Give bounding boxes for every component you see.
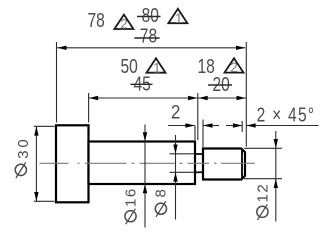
arrowhead 2 groove right	[203, 123, 212, 127]
arrowhead d30 top	[34, 126, 38, 135]
extension line groove middle (50/18 junction)	[197, 93, 199, 140]
arrowhead d12 top	[274, 139, 278, 148]
dimension line 18	[198, 97, 246, 99]
revision triangle 2 (18)	[225, 58, 244, 72]
d8 extension line bottom	[170, 171, 196, 173]
svg-text:12: 12	[254, 183, 271, 203]
shaft section d16	[89, 142, 196, 185]
svg-text:1: 1	[153, 60, 161, 75]
d12 extension line top	[244, 147, 282, 149]
arrowhead d8 top	[173, 145, 177, 154]
chamfer edge line	[241, 149, 243, 179]
arrowhead chamfer right	[246, 123, 255, 127]
d30 extension line bottom	[34, 200, 55, 202]
svg-text:2: 2	[171, 102, 181, 123]
revision triangle 1 (50)	[147, 58, 166, 72]
dimension line d12	[275, 131, 277, 222]
label d16	[125, 209, 136, 225]
dimension line chamfer left tail	[226, 125, 242, 127]
arrowhead 78 right	[236, 46, 245, 50]
dimension line d30	[35, 126, 37, 201]
svg-text:8: 8	[153, 188, 170, 198]
arrowhead 18 left	[198, 96, 207, 100]
dimension line d16	[144, 125, 146, 228]
arrowhead 18 right	[237, 96, 246, 100]
centerline (shaft axis)	[40, 162, 256, 164]
dimension line 2 (groove) right tail	[203, 125, 219, 127]
svg-text:2 × 45°: 2 × 45°	[257, 104, 316, 126]
svg-text:2: 2	[120, 17, 128, 32]
dimension line 2 (groove) left tail	[168, 125, 195, 127]
extension line chamfer start	[241, 121, 243, 132]
extension line groove right (2 dim)	[202, 120, 204, 148]
d8 extension line top	[170, 153, 196, 155]
revision triangle 2	[114, 15, 133, 29]
label d12	[257, 204, 268, 220]
label d30	[15, 162, 26, 178]
arrowhead 50 left	[89, 96, 98, 100]
dimension line chamfer right tail	[246, 125, 318, 127]
svg-text:78: 78	[140, 25, 157, 47]
arrowhead d8 bottom	[173, 172, 177, 181]
extension line flange right (50 dim)	[88, 93, 90, 123]
arrowhead d16 bottom	[143, 184, 147, 193]
arrowhead 78 left	[57, 46, 66, 50]
groove neck d8 top line	[195, 153, 203, 155]
revision triangle 1	[168, 9, 187, 23]
flange body (d30 cylinder)	[56, 125, 89, 202]
d30 extension line top	[34, 125, 55, 127]
label d8	[155, 201, 166, 217]
arrowhead 2 groove left	[185, 123, 194, 127]
svg-text:1: 1	[175, 11, 183, 26]
d12 extension line bottom	[244, 178, 282, 180]
arrowhead d12 bottom	[274, 179, 278, 188]
svg-text:2: 2	[230, 60, 238, 75]
extension line shaft right end	[245, 42, 247, 147]
extension line groove left (2 dim)	[194, 126, 196, 141]
extension line left end (78 dim)	[56, 42, 58, 123]
arrowhead chamfer left	[233, 123, 242, 127]
dimension line 50	[89, 97, 198, 99]
dimension line d8	[175, 135, 177, 220]
arrowhead d16 top	[143, 132, 147, 141]
shaft end section d12 with chamfered corners	[203, 149, 245, 180]
groove neck d8 bottom line	[195, 171, 203, 173]
dimension line 78	[57, 47, 245, 49]
arrowhead 50 right	[188, 96, 197, 100]
arrowhead d30 bottom	[34, 192, 38, 201]
svg-text:80: 80	[142, 4, 159, 26]
svg-text:30: 30	[15, 137, 32, 159]
svg-text:78: 78	[88, 9, 105, 31]
svg-text:16: 16	[123, 187, 140, 207]
